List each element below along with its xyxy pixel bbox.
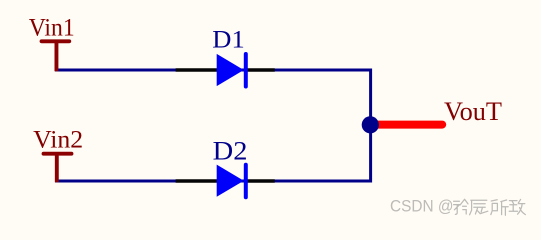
junction node — [362, 116, 379, 133]
wire top horizontal — [55, 69, 372, 72]
svg-text:Vin2: Vin2 — [33, 125, 83, 154]
port Vin2 — [33, 125, 83, 183]
Vin1 bar — [42, 39, 70, 43]
wire bottom horizontal — [55, 180, 372, 183]
watermark hanzi 致 — [509, 199, 525, 214]
diode D1 — [176, 25, 275, 87]
diode D2 — [176, 135, 275, 197]
watermark hanzi 矜 — [454, 199, 468, 214]
D2 cathode bar — [244, 165, 248, 198]
watermark hanzi 所 — [491, 200, 508, 215]
svg-text:D1: D1 — [212, 25, 244, 54]
Vin1 stub — [55, 41, 59, 71]
port Vin1 — [29, 13, 75, 72]
svg-text:Vin1: Vin1 — [29, 13, 75, 42]
wire VouT stub (red) — [374, 121, 442, 129]
svg-text:CSDN @: CSDN @ — [390, 198, 454, 216]
D2 anode triangle — [217, 165, 244, 197]
watermark hanzi 辰 — [470, 200, 488, 215]
D2 pin lead left — [176, 179, 218, 183]
svg-text:D2: D2 — [213, 135, 248, 165]
wire right vertical — [369, 69, 372, 183]
Vin2 stub — [55, 154, 59, 183]
D1 pin lead right — [247, 68, 275, 72]
D1 pin lead left — [176, 68, 218, 72]
svg-text:VouT: VouT — [444, 97, 502, 126]
D2 pin lead right — [247, 179, 275, 183]
D1 cathode bar — [244, 54, 248, 87]
Vin2 bar — [44, 152, 72, 156]
D1 anode triangle — [217, 54, 244, 86]
